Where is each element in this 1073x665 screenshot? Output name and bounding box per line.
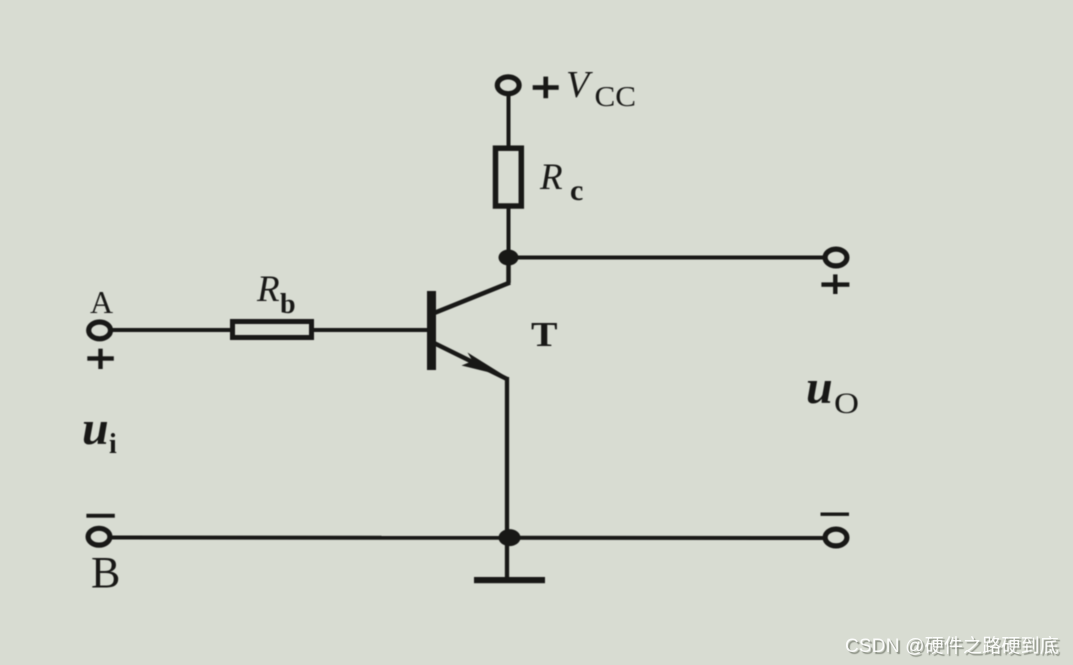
- svg-text:i: i: [109, 429, 117, 460]
- svg-text:B: B: [91, 548, 120, 597]
- svg-text:R: R: [539, 157, 563, 198]
- svg-text:R: R: [256, 269, 280, 310]
- svg-text:CC: CC: [595, 82, 637, 113]
- svg-text:O: O: [834, 387, 859, 420]
- svg-text:c: c: [570, 174, 583, 207]
- svg-text:u: u: [82, 402, 109, 455]
- svg-text:b: b: [280, 289, 296, 320]
- svg-text:u: u: [806, 361, 833, 414]
- svg-text:A: A: [90, 284, 113, 320]
- svg-text:V: V: [566, 64, 593, 106]
- svg-text:T: T: [531, 315, 558, 354]
